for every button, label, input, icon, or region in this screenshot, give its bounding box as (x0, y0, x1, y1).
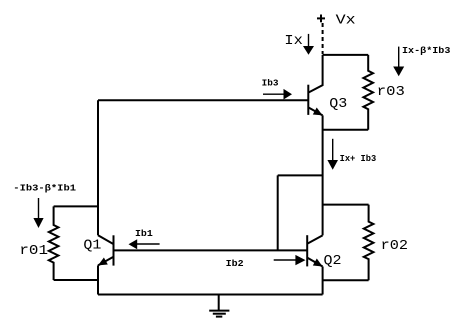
svg-text:Vx: Vx (336, 13, 356, 28)
resistor r01 (49, 206, 59, 280)
resistor r03 (363, 55, 373, 130)
wire Q1 emitter down to bottom rail (97, 265, 99, 294)
wire r02 bottom (323, 279, 369, 281)
wire top node to r03 top (323, 54, 369, 56)
wire emitter node left branch (278, 174, 323, 176)
svg-text:Ib3: Ib3 (262, 77, 279, 88)
wire branch down to base rail (277, 175, 279, 250)
ground (209, 295, 229, 317)
current arrow -Ib3-beta*Ib1 (33, 198, 43, 228)
current arrow Ix-beta*Ib3 (393, 47, 404, 77)
svg-text:Ix-β*Ib3: Ix-β*Ib3 (402, 45, 451, 56)
node Vx plus sign (317, 15, 325, 23)
wire r03 bottom to emitter line (323, 129, 369, 131)
current arrow Ix (303, 34, 314, 55)
svg-text:r03: r03 (377, 85, 405, 100)
wire left vertical Q1 collector to top (97, 100, 99, 235)
wire bottom rail (98, 294, 323, 296)
wire Q2 emitter down to bottom rail (322, 267, 324, 295)
transistor Q1 (98, 235, 114, 265)
wire r01 bottom (54, 279, 98, 281)
current arrow Ix+Ib3 (327, 139, 338, 170)
current arrow Ib1 (129, 239, 160, 249)
current arrow Ib2 (274, 255, 306, 265)
svg-text:Q2: Q2 (324, 254, 342, 269)
svg-text:r01: r01 (19, 244, 48, 259)
wire base rail Q1 to Q2 (114, 249, 308, 251)
svg-text:Ib2: Ib2 (226, 258, 244, 269)
transistor Q2 (307, 235, 322, 266)
svg-text:Ib1: Ib1 (135, 228, 153, 239)
wire r02 top (323, 204, 369, 206)
svg-text:Ix+ Ib3: Ix+ Ib3 (340, 153, 377, 164)
wire Q3 emitter down to Q2 collector (322, 115, 324, 235)
wire Q3 base rail from left vertical (98, 99, 308, 101)
wire dashed stub from Vx terminal to top node (322, 23, 324, 54)
svg-text:-Ib3-β*Ib1: -Ib3-β*Ib1 (13, 182, 76, 193)
svg-text:r02: r02 (381, 239, 408, 254)
svg-text:Q3: Q3 (329, 97, 347, 112)
svg-text:Ix: Ix (284, 34, 303, 49)
svg-text:Q1: Q1 (83, 238, 101, 253)
current arrow Ib3 (263, 89, 292, 100)
transistor Q3 (308, 55, 322, 116)
wire r01 top (54, 205, 98, 207)
resistor r02 (364, 205, 374, 281)
